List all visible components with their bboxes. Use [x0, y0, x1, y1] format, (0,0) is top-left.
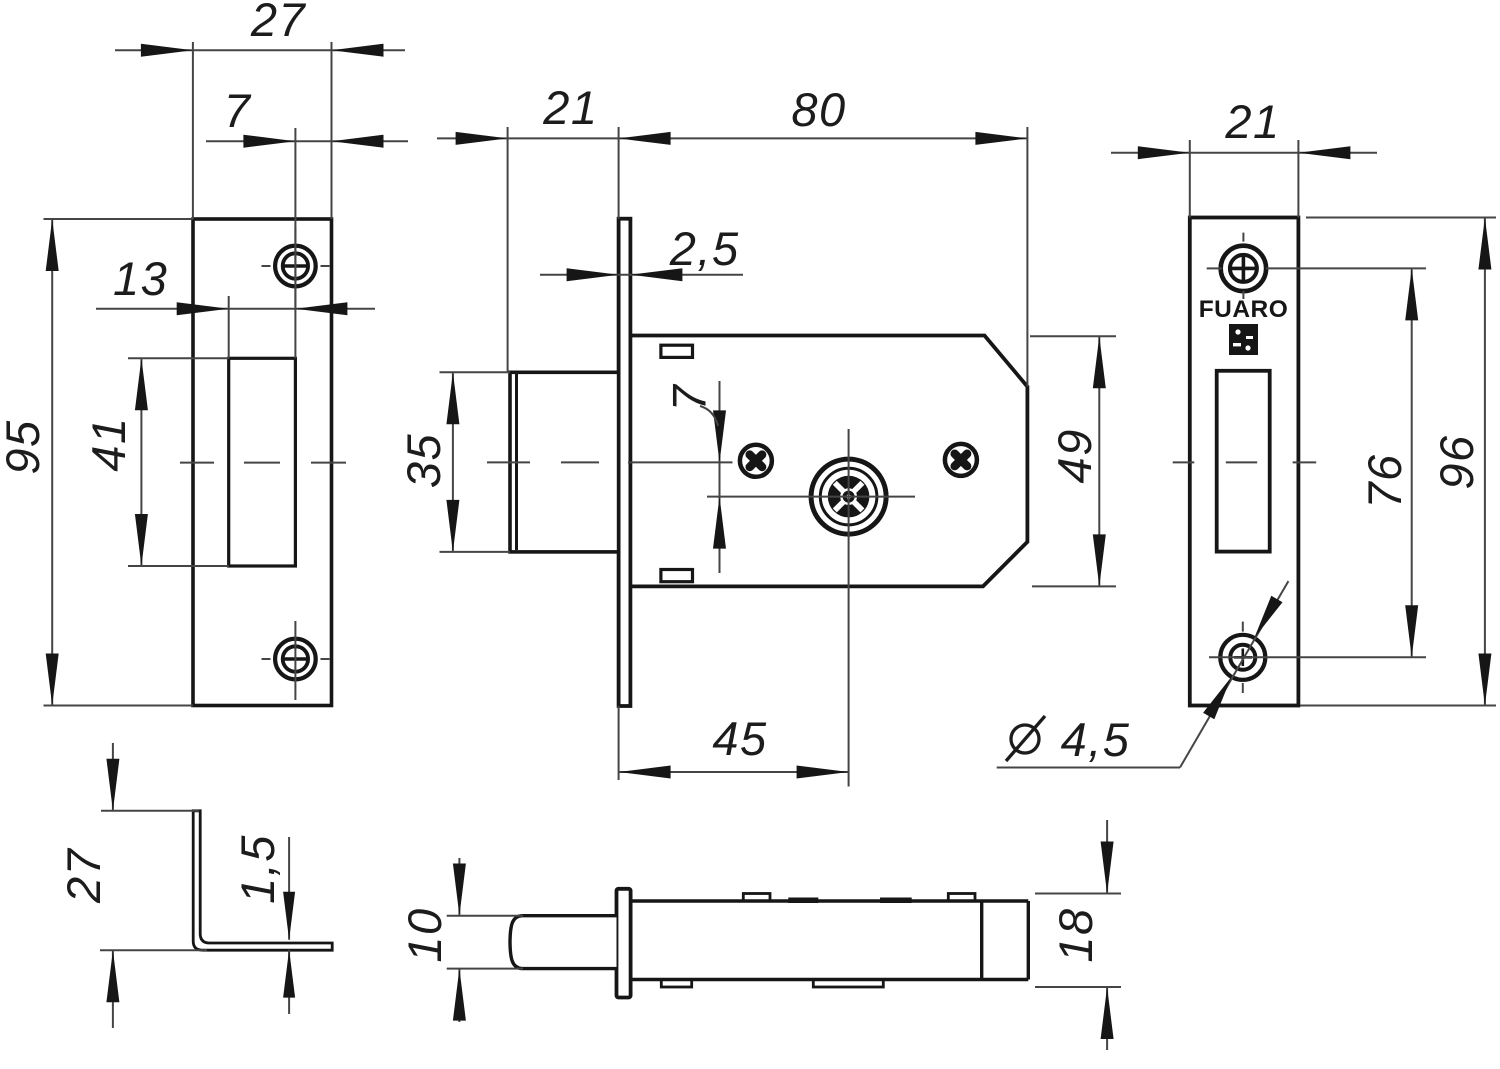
faceplate top screw centerlines [1207, 233, 1244, 299]
screw boss right (lock body) [945, 444, 977, 476]
svg-text:27: 27 [250, 0, 307, 46]
faceplate front outline [1190, 218, 1299, 706]
FUARO brand text [1199, 296, 1289, 323]
key cylinder horizontal centerline [707, 496, 915, 498]
FUARO square logo [1229, 324, 1258, 355]
svg-text:96: 96 [1430, 434, 1483, 489]
bottom view top tabs [743, 894, 975, 904]
svg-text:21: 21 [542, 81, 598, 134]
bottom view latch bolt with rounded nose [510, 916, 617, 969]
dimension 2,5 (faceplate thickness) [540, 222, 743, 281]
faceplate edge (middle view) [619, 219, 631, 706]
dimension 21 (backset front) [437, 81, 1027, 372]
dimension 49 (body height) [1030, 336, 1116, 586]
svg-text:95: 95 [0, 419, 49, 474]
screw boss left (lock body) [740, 445, 772, 477]
dimension 76 (screw spacing) [1209, 268, 1426, 657]
svg-text:13: 13 [113, 252, 168, 305]
strike plate bottom screw [275, 639, 316, 680]
dimension 80 (body depth) [791, 83, 1027, 387]
lock body bottom tab hole [661, 570, 693, 582]
svg-text:1,5: 1,5 [231, 834, 284, 904]
svg-text:2,5: 2,5 [669, 222, 740, 275]
faceplate bottom screw [1220, 635, 1265, 680]
svg-text:45: 45 [712, 712, 767, 765]
strike plate horizontal centerline [180, 462, 346, 464]
dimension 21 (faceplate width) [1111, 95, 1377, 218]
dimension 1,5 (bracket thickness) [231, 834, 295, 1014]
strike plate latch cutout [229, 358, 296, 566]
latch bolt (side view) [510, 372, 619, 552]
dimension 41 (cutout height) [82, 358, 229, 566]
lock body screw axis dashed centerline [487, 461, 733, 463]
diameter 4,5 leader line [997, 581, 1289, 767]
svg-text:27: 27 [57, 847, 110, 904]
svg-text:10: 10 [398, 907, 451, 962]
diameter 4,5 label [1006, 713, 1130, 766]
bottom view lock body [631, 901, 1029, 980]
svg-text:18: 18 [1049, 907, 1102, 962]
lock body top tab hole [661, 345, 693, 357]
dimension 45 (key axis backset) [619, 706, 849, 780]
lock body outline with chamfered right corners [630, 336, 1027, 587]
strike plate bottom screw centerlines [262, 621, 330, 700]
svg-text:41: 41 [82, 416, 135, 471]
dimension 7 (screw line to plate edge) [206, 84, 408, 358]
faceplate latch cutout [1217, 371, 1270, 552]
dimension 10 (latch thickness) [398, 858, 523, 1022]
svg-text:21: 21 [1224, 95, 1280, 148]
svg-text:FUARO: FUARO [1199, 296, 1289, 323]
dimension 95 (strike plate height) [0, 219, 193, 706]
strike plate top screw centerlines [262, 227, 330, 307]
svg-text:7: 7 [224, 84, 252, 137]
faceplate top screw [1221, 246, 1266, 291]
L-bracket section profile [193, 811, 332, 950]
svg-text:4,5: 4,5 [1061, 713, 1131, 766]
key cylinder [811, 459, 886, 534]
svg-text:76: 76 [1358, 453, 1411, 508]
dimension 27 (bracket leg) [57, 743, 207, 1028]
bottom view faceplate flange [617, 889, 631, 998]
svg-text:35: 35 [397, 433, 450, 488]
dimension 13 (cutout edge to screw line) [96, 252, 375, 358]
svg-text:80: 80 [791, 83, 846, 136]
dimension 7 (axis offset) [663, 381, 727, 573]
bottom view bottom tabs [661, 980, 883, 988]
svg-text:49: 49 [1048, 428, 1101, 483]
dimension 18 (body thickness) [1035, 820, 1121, 1050]
key cylinder vertical centerline [848, 429, 850, 787]
faceplate horizontal centerline [1173, 461, 1317, 463]
strike plate outline [193, 219, 332, 706]
dimension 35 (latch height) [397, 372, 510, 552]
strike plate top screw [275, 246, 316, 287]
faceplate bottom screw centerlines [1242, 622, 1244, 693]
dimension 96 (faceplate height) [1300, 218, 1496, 706]
svg-text:7: 7 [663, 383, 716, 411]
dimension 27 (strike plate width) [115, 0, 405, 219]
